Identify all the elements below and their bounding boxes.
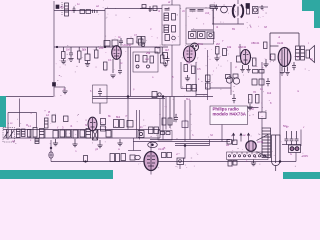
comp cluster K7 bbox=[110, 154, 120, 162]
svg-text:300: 300 bbox=[186, 61, 191, 65]
coil L4 bbox=[221, 6, 228, 13]
wire top bus left bbox=[54, 10, 105, 12]
switch S2 bbox=[139, 39, 144, 45]
resistor R27 bbox=[223, 49, 227, 56]
resistor R58 bbox=[162, 118, 166, 125]
wire h y88 bbox=[210, 87, 231, 89]
wire v x207.5 bbox=[207, 50, 209, 95]
node dot A bbox=[104, 46, 106, 48]
wire bus y98.5 bbox=[93, 98, 166, 100]
wire bus y96.5 bbox=[5, 96, 54, 98]
transformer X1 bbox=[93, 130, 98, 140]
speaker cone horn bbox=[257, 135, 269, 158]
resistor R20 bbox=[187, 85, 192, 92]
svg-text:modelo H4X73A: modelo H4X73A bbox=[213, 112, 247, 117]
svg-text:0.5: 0.5 bbox=[197, 67, 201, 71]
electrolytic C22 bbox=[49, 152, 53, 158]
speaker plug J1 bbox=[289, 145, 301, 153]
resistor R2 bbox=[86, 10, 91, 14]
ground am g1 bbox=[53, 139, 58, 146]
ground under V2 bbox=[185, 75, 190, 81]
svg-text:w: w bbox=[118, 148, 120, 151]
svg-text:UY41: UY41 bbox=[257, 140, 264, 144]
wire heater right edge bbox=[209, 140, 211, 146]
wire v x185 upper bbox=[184, 100, 186, 142]
wire left rail x57 bbox=[53, 11, 55, 83]
ground am g2 bbox=[72, 139, 77, 147]
coil L10 small bbox=[35, 139, 39, 144]
comp K4 bbox=[152, 92, 161, 98]
wire v x301 bbox=[300, 130, 302, 147]
resistor R40 bbox=[53, 131, 58, 139]
tube V1 UCH42 converter bbox=[112, 46, 122, 60]
wire v x296 bbox=[295, 153, 297, 162]
electrolytic C14 bbox=[232, 94, 236, 103]
ground under V4 g1 bbox=[280, 73, 284, 76]
tube V4 UL41 output bbox=[278, 48, 291, 67]
resistor R51 bbox=[167, 153, 172, 158]
variable capacitor CV1 bbox=[5, 130, 9, 139]
tuning gang dashed box bbox=[3, 128, 15, 143]
resistor R22 bbox=[210, 5, 215, 9]
wire heater y139.5 bbox=[150, 139, 230, 141]
resistor R48 bbox=[120, 120, 125, 128]
trimmer CT2 bbox=[136, 65, 139, 68]
loudspeaker LS1 bbox=[306, 46, 315, 63]
svg-text:0.1: 0.1 bbox=[108, 58, 112, 62]
component box W1 bbox=[182, 121, 188, 128]
capacitor C8 in T1 bbox=[165, 35, 175, 41]
coil box L5 bbox=[253, 7, 259, 14]
node dot F bbox=[279, 161, 281, 163]
wire v x262 bbox=[261, 62, 263, 112]
antenna terminal blob bbox=[56, 5, 59, 9]
svg-text:50k: 50k bbox=[82, 48, 87, 52]
comp cluster K1 bbox=[138, 131, 144, 138]
resistor R24 bbox=[264, 42, 268, 49]
wire if drop x170 bbox=[169, 97, 171, 129]
trimmer CT3 bbox=[147, 65, 150, 68]
wire v x231 bbox=[230, 62, 232, 95]
tube V5 UBC41 bbox=[241, 50, 251, 65]
heater box B1 bbox=[158, 131, 172, 141]
resistor R25 bbox=[271, 54, 276, 60]
tube V8 UY41 rectifier bbox=[246, 141, 256, 151]
resistor R54 bbox=[228, 161, 232, 167]
teal canvas patch left bbox=[0, 96, 6, 127]
ground g3b bbox=[263, 59, 268, 67]
antenna input coil L1 bbox=[65, 3, 69, 16]
resistor R61 bbox=[106, 131, 111, 138]
capacitor C3 bbox=[69, 47, 73, 58]
resistor R50 bbox=[162, 153, 167, 158]
svg-text:UBC41: UBC41 bbox=[251, 41, 260, 45]
terminal blob K8 bbox=[53, 83, 56, 87]
tube V3 UBC41 top bbox=[233, 5, 243, 18]
lead r5 bbox=[78, 47, 80, 63]
core slug M2 bbox=[172, 26, 176, 33]
resistor R32 bbox=[206, 75, 211, 82]
node dot B bbox=[56, 46, 58, 48]
resistor R13 in osc bbox=[143, 56, 147, 63]
wire riser x51 bottom bbox=[50, 140, 52, 162]
capacitor C21 bbox=[174, 114, 178, 122]
ground bottom right g5 bbox=[251, 160, 256, 166]
wire mid drops x136.5 bbox=[136, 110, 138, 138]
svg-text:4k7: 4k7 bbox=[165, 48, 170, 52]
svg-text:sw: sw bbox=[226, 144, 229, 147]
comp small K2 bbox=[64, 116, 69, 122]
resistor R39 bbox=[52, 115, 56, 122]
resistor R52 bbox=[227, 140, 232, 145]
wire heater y141.5 bbox=[133, 141, 230, 143]
wire output frame top bbox=[270, 33, 299, 60]
tube V2 UF41 IF amp bbox=[184, 46, 196, 62]
capacitor C5 bbox=[119, 38, 123, 46]
lead r4 bbox=[63, 47, 65, 52]
ground K8g bbox=[62, 91, 67, 94]
svg-text:UCH42: UCH42 bbox=[123, 43, 132, 47]
wire v x151 tube top lead bbox=[150, 142, 152, 152]
ground under R4 bbox=[61, 59, 66, 64]
wire v x222 bbox=[221, 120, 223, 142]
svg-text:1k2: 1k2 bbox=[267, 91, 272, 95]
switch dashed link S1 bbox=[61, 2, 63, 15]
resistor R16 bbox=[155, 48, 160, 54]
capacitor C7 in T1 bbox=[165, 9, 170, 11]
wire corner y87 bbox=[54, 86, 65, 88]
resistor R57 bbox=[259, 79, 264, 85]
wire v x240 bbox=[239, 44, 241, 56]
svg-text:220: 220 bbox=[99, 46, 104, 50]
ground am g3 bbox=[97, 140, 102, 148]
wire tube top lead bbox=[270, 45, 279, 47]
wire v x180 tail bbox=[179, 165, 181, 170]
resistor R19 bbox=[192, 66, 196, 74]
resistor R23 bbox=[247, 9, 250, 15]
core slug M1 bbox=[172, 14, 176, 21]
resistor R62 bbox=[121, 154, 126, 161]
IF transformer can T1 bbox=[162, 5, 180, 45]
capacitor C12 bbox=[261, 5, 264, 10]
oscillator can box bbox=[133, 52, 158, 72]
capacitor C17 bbox=[285, 131, 289, 145]
coil L6 bbox=[17, 129, 21, 138]
resistor R47 bbox=[114, 120, 119, 128]
node dot H bbox=[50, 147, 52, 149]
capacitor C11 bbox=[215, 5, 218, 11]
tube V6 UAF42 box bbox=[93, 85, 108, 103]
resistor R44 bbox=[80, 130, 85, 137]
comp right am K3 bbox=[149, 127, 159, 134]
wire bus y47 bbox=[54, 46, 168, 48]
resistor R56 bbox=[252, 79, 257, 85]
resistor R33 bbox=[206, 83, 211, 89]
svg-text:af: af bbox=[168, 0, 170, 4]
resistor R30 bbox=[253, 70, 259, 74]
wire if drops x163 bbox=[162, 97, 164, 140]
wire vertical x105 bbox=[104, 9, 106, 48]
tiny value labels bbox=[28, 41, 308, 158]
ground am g4 bbox=[117, 139, 122, 146]
wire am rail x8 bbox=[7, 113, 9, 140]
wire if drops x160 bbox=[159, 99, 161, 139]
capacitor C10 in T2 bbox=[198, 10, 204, 12]
resistor R43 bbox=[73, 130, 78, 138]
svg-text:25k: 25k bbox=[146, 51, 151, 55]
wire h y107.5 bbox=[240, 107, 259, 109]
switch bank SW1 bbox=[227, 152, 269, 160]
coil L3 in T1 bbox=[164, 25, 169, 33]
wire v x151 tube tail bbox=[150, 171, 152, 175]
resistor R8 bbox=[104, 62, 108, 70]
capacitor C15 bbox=[40, 129, 45, 139]
resistor R4 on y47 bbox=[62, 52, 66, 59]
wire bottom bus y161.5 bbox=[51, 161, 296, 163]
coil L2 in T1 bbox=[164, 13, 169, 21]
lead r6 bbox=[87, 47, 89, 54]
resistor R1 bbox=[80, 10, 85, 14]
svg-text:UAF42: UAF42 bbox=[238, 45, 247, 49]
wire v x280 long bbox=[279, 62, 281, 162]
dial lamp LP1 bbox=[148, 142, 158, 148]
resistor R17 bbox=[163, 53, 168, 59]
svg-text:c10: c10 bbox=[205, 11, 210, 15]
wire heater y143.5 bbox=[175, 143, 210, 145]
wire v x172 mid bbox=[171, 45, 173, 97]
tube V1 leads bbox=[113, 59, 120, 73]
diode cluster D1 bbox=[226, 74, 240, 84]
wire if drops x166 bbox=[165, 97, 167, 130]
wire am top y129.5 bbox=[3, 129, 160, 131]
ground under V4 g2 bbox=[285, 73, 289, 76]
wire mid drops x139.5 bbox=[139, 110, 141, 140]
wire v x185 tap bbox=[184, 146, 186, 159]
wire h y8 left of can bbox=[140, 8, 150, 10]
resistor R46 bbox=[101, 126, 106, 131]
resistor R34 bbox=[249, 95, 253, 104]
ground under C3 bbox=[68, 59, 73, 62]
wire h y30 in T2 bbox=[191, 29, 213, 31]
wire bus y96.5 right part bbox=[93, 96, 214, 98]
capacitor C19 bbox=[295, 131, 299, 145]
trimmer pair CT1 bbox=[137, 37, 145, 47]
lamp LP2 bbox=[135, 155, 141, 159]
node dot D bbox=[127, 96, 129, 98]
resistor R41 bbox=[60, 130, 65, 137]
wire heater y145.5 bbox=[175, 145, 210, 147]
resistor R6 bbox=[85, 54, 90, 61]
wire v x262 low bbox=[261, 119, 263, 129]
resistor R14 in osc bbox=[150, 56, 154, 63]
wire v x133.5 bbox=[133, 138, 135, 151]
electrolytic can C16 bbox=[272, 135, 281, 166]
ground under R29 bbox=[240, 70, 244, 73]
ground under V1 bbox=[110, 75, 115, 78]
resistor R26 bbox=[216, 47, 220, 55]
ground under R6 bbox=[85, 61, 90, 67]
capacitor C6 bbox=[166, 56, 170, 63]
wire osc vertical x130.5 bbox=[130, 47, 132, 97]
ground under R26 bbox=[214, 54, 219, 61]
resistor R15 bbox=[161, 55, 165, 63]
mains plug arrows A1 bbox=[232, 133, 249, 141]
marks top small bbox=[93, 10, 98, 14]
svg-text:8k2: 8k2 bbox=[116, 115, 121, 119]
terminal blob top bbox=[246, 4, 250, 9]
resistor R5 bbox=[78, 51, 82, 59]
wire h y88.5 bbox=[181, 88, 196, 90]
capacitor C2 bbox=[149, 6, 153, 12]
resistor R42 bbox=[66, 130, 71, 137]
label box Philips bbox=[210, 106, 248, 125]
comp K5 bbox=[130, 155, 135, 160]
volume pot box P2 bbox=[177, 158, 184, 165]
wire v x150 top bbox=[149, 9, 151, 13]
wire can1 top lead bbox=[171, 0, 173, 5]
tube V6 UAF42 bbox=[88, 117, 97, 131]
resistor R10 bbox=[112, 40, 118, 46]
schematic paper background bbox=[0, 0, 320, 179]
svg-text:vr: vr bbox=[176, 152, 178, 156]
teal canvas patch top-right bbox=[302, 0, 320, 11]
resistor R53 bbox=[233, 140, 238, 145]
resistor R59 bbox=[168, 118, 172, 125]
wire h y150.5 bbox=[128, 150, 141, 152]
svg-text:osc: osc bbox=[145, 58, 150, 61]
resistor R60 bbox=[142, 5, 146, 9]
wire h y144.5 bbox=[282, 144, 301, 146]
teal canvas patch bottom-left bbox=[0, 170, 113, 179]
resistor R45 bbox=[101, 119, 106, 125]
wire h y6.5 bbox=[210, 6, 232, 8]
resistor R11 bbox=[127, 39, 133, 45]
wire if drop x174 bbox=[173, 97, 175, 123]
capacitor C18 bbox=[290, 131, 294, 145]
output transformer T3 bbox=[262, 128, 271, 158]
svg-text:UL41: UL41 bbox=[277, 41, 284, 45]
wire v x213 bbox=[212, 8, 214, 24]
wire h y7 right bbox=[259, 6, 268, 8]
node dot G bbox=[184, 145, 186, 147]
wire drop x36.5 bbox=[36, 113, 38, 128]
scan speckle texture bbox=[7, 1, 310, 169]
resistor R3 bbox=[153, 6, 157, 11]
resistor R55 bbox=[233, 161, 237, 166]
IF transformer can T2 bbox=[186, 8, 214, 44]
coil L7 bbox=[22, 129, 26, 137]
resistor R18 bbox=[184, 65, 188, 72]
capacitor C13 bbox=[292, 62, 296, 70]
coil L9 bbox=[86, 129, 91, 139]
wire left edge down bbox=[4, 97, 6, 128]
resistor R7 bbox=[95, 50, 99, 58]
svg-text:UF41: UF41 bbox=[197, 42, 204, 46]
variable capacitor CV2 bbox=[10, 130, 14, 139]
wire h y112 bbox=[8, 112, 37, 114]
lead r7 bbox=[95, 47, 97, 50]
capacitor C4 bbox=[118, 71, 122, 75]
output transformer T4 winding 2 bbox=[301, 46, 305, 60]
am row lead v1 bbox=[30, 130, 112, 139]
output transformer T4 winding 1 bbox=[296, 46, 300, 60]
resistor R38 bbox=[33, 128, 37, 138]
resistor R28 bbox=[237, 56, 243, 62]
trimmer box CT6 bbox=[207, 32, 214, 39]
trimmer box CT5 bbox=[198, 32, 206, 39]
trimmer box CT4 bbox=[189, 32, 197, 39]
ground under R17 bbox=[163, 62, 168, 67]
teal canvas patch bottom-right bbox=[283, 172, 320, 179]
resistor R36 bbox=[259, 112, 267, 119]
wire top bus mid bbox=[105, 8, 162, 10]
svg-text:10k: 10k bbox=[227, 45, 232, 49]
svg-text:r: r bbox=[213, 69, 214, 73]
wire h y24 top right bbox=[212, 23, 244, 25]
lead r15 bbox=[161, 47, 163, 55]
teal canvas patch right-edge bbox=[314, 11, 320, 28]
resistor R12 in osc bbox=[136, 55, 140, 62]
capacitor C20 bbox=[266, 78, 270, 86]
comp on bottom bus K6 bbox=[84, 156, 88, 163]
svg-text:1M: 1M bbox=[66, 48, 70, 52]
capacitor C9 in T2 bbox=[190, 10, 196, 12]
tube socket view P1 bbox=[191, 43, 199, 51]
resistor R31 bbox=[259, 70, 264, 74]
wire v x65 bbox=[64, 87, 66, 90]
capacitor C1 bbox=[73, 7, 76, 14]
resistor R29 bbox=[253, 58, 257, 66]
resistor R9 row above y47 bbox=[104, 41, 110, 47]
resistor R37 bbox=[28, 130, 32, 138]
resistor R21 bbox=[192, 85, 197, 92]
wire corner y94.5 bbox=[196, 95, 208, 101]
wire rail x54 lower bbox=[53, 86, 55, 97]
resistor R49 bbox=[127, 121, 133, 128]
wire v x181 bbox=[180, 62, 182, 89]
wire v x190 upper bbox=[189, 100, 191, 140]
wire am bottom y138 bbox=[3, 137, 160, 139]
tube V4 leads bbox=[282, 67, 288, 73]
coil L8 vertical bbox=[45, 118, 49, 128]
wire v x196 bbox=[195, 62, 197, 97]
svg-text:220V: 220V bbox=[302, 154, 308, 158]
wire antenna vertical bbox=[53, 1, 55, 11]
svg-text:2M: 2M bbox=[216, 42, 220, 46]
tube V7 UL41 audio output bbox=[144, 152, 158, 171]
wire v x238 top bbox=[237, 0, 239, 24]
node dot E bbox=[162, 96, 164, 98]
wire drop x19.5 bbox=[19, 99, 21, 128]
wire v x246 bbox=[245, 59, 247, 63]
can tail wire bbox=[275, 166, 277, 172]
ground under R34 bbox=[247, 104, 252, 110]
wire osc verticals x128 bbox=[127, 47, 129, 130]
svg-text:m: m bbox=[297, 90, 299, 93]
svg-text:bus: bus bbox=[186, 97, 191, 101]
resistor R35 bbox=[256, 95, 260, 104]
